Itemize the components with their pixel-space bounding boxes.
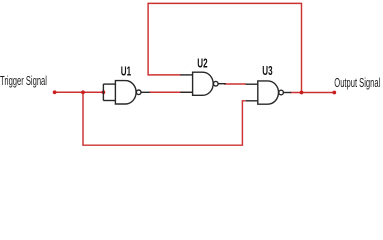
node: trigger input terminal dot	[53, 90, 57, 94]
wire: trigger signal horizontal	[55, 91, 104, 93]
U1 output pin stub	[141, 91, 150, 93]
node: output terminal dot	[332, 91, 336, 95]
wire: U3 output to output terminal	[290, 92, 334, 94]
svg-text:Output Signal: Output Signal	[334, 76, 380, 91]
wire: top feedback loop from U3 output up over to U2 upper input	[148, 3, 301, 92]
node: junction of U3 output and top feedback	[300, 91, 304, 95]
svg-text:U3: U3	[262, 64, 272, 78]
node: junction of trigger wire and bottom loop	[81, 90, 85, 94]
svg-text:U1: U1	[121, 65, 131, 79]
U1 output bubble	[136, 90, 141, 95]
U2 output pin stub	[218, 83, 226, 85]
wire: U2 output to U3 upper input	[224, 83, 246, 85]
U3 input pin 2	[246, 100, 258, 102]
wire: bottom feedback loop from trigger junction to U3 lower input	[83, 92, 246, 145]
U3 output pin stub	[283, 92, 291, 94]
svg-text:U2: U2	[197, 57, 207, 71]
U2 input pin 1	[180, 74, 192, 76]
nand gate U2 body	[180, 72, 226, 95]
nand gate U1 body	[103, 81, 150, 104]
U1 input pin 2	[103, 100, 115, 102]
U2 input pin 2	[180, 91, 192, 93]
wire: U1 output to U2 lower input	[149, 91, 192, 93]
U3 input pin 1	[246, 83, 258, 85]
nand gate U3 body	[246, 81, 292, 104]
U3 output bubble	[279, 90, 284, 95]
U2 output bubble	[214, 81, 219, 86]
node: junction at U1 tied inputs	[102, 90, 106, 94]
wire: U1 input tie (pins joined)	[102, 84, 104, 100]
U1 input pin 1	[103, 83, 115, 85]
svg-text:Trigger Signal: Trigger Signal	[0, 74, 47, 89]
